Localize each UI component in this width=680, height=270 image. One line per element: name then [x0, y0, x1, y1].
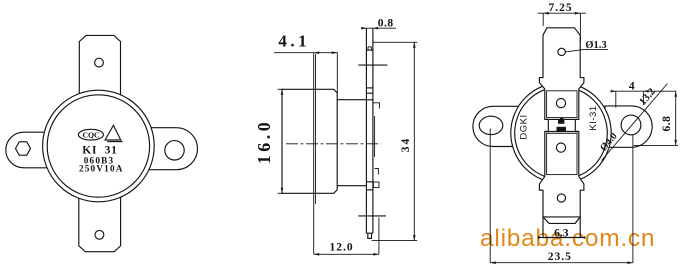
top mounting tab (front view): [79, 35, 120, 97]
mounting plate right edge (side view): [372, 28, 374, 233]
12.0 right extension line: [378, 218, 380, 255]
diagonal leader through right ear hole: [602, 84, 668, 161]
top tab hole: [95, 58, 104, 67]
svg-text:CQC: CQC: [83, 131, 100, 140]
thermostat body inner circle (front view): [47, 95, 149, 197]
dimension line for 0.8: [362, 27, 396, 29]
central bracket with terminals (rear view): [539, 28, 584, 238]
extension line from cap right edge: [336, 53, 338, 93]
bent tab line behind plate: [374, 116, 376, 157]
plate bottom foot: [368, 233, 372, 238]
extension line through body (left of 12.0 dim): [313, 53, 315, 255]
inner body line: [315, 54, 317, 204]
23.5 right extension line: [632, 135, 634, 263]
cap body (side view): [282, 89, 337, 193]
dimension line for 6.3: [539, 237, 585, 239]
svg-text:34: 34: [400, 137, 412, 153]
bottom plate rivet hole: [556, 143, 565, 152]
top plate rivet hole: [556, 99, 565, 108]
top terminal edge-on (side view): [358, 64, 387, 66]
svg-text:7.25: 7.25: [548, 2, 572, 14]
34 extension line bottom: [372, 240, 418, 242]
right mounting ear (front view): [140, 128, 198, 170]
alibaba.com.cn watermark: [480, 225, 655, 252]
bottom terminal edge-on (side view): [358, 215, 386, 217]
bottom mounting tab (front view): [79, 195, 121, 252]
svg-text:4: 4: [629, 80, 635, 92]
dimension line for 23.5: [490, 262, 633, 264]
left ear hole (rear view): [479, 116, 503, 134]
plate rung marks lower: [366, 181, 373, 183]
top plate bottom edge: [545, 118, 579, 120]
left mounting ear (rear view): [473, 106, 518, 146]
plate top tab marks: [366, 49, 373, 51]
svg-text:23.5: 23.5: [548, 251, 572, 263]
dimension line for 12.0: [314, 253, 379, 255]
bottom plate top edge: [545, 131, 579, 133]
svg-text:KI-31: KI-31: [588, 105, 599, 130]
center adjusting rivet: [560, 118, 563, 120]
mounting plate left edge (side view): [365, 28, 367, 233]
horizontal center line (side view): [286, 143, 381, 145]
svg-text:4.1: 4.1: [278, 31, 310, 50]
bottom plate inner outline: [547, 133, 577, 174]
16.0 dimension arrows on cap left face: [278, 88, 283, 90]
flange inner circle (rear view): [515, 87, 608, 180]
dimension line for 7.25: [538, 12, 586, 14]
svg-text:250V10A: 250V10A: [79, 164, 124, 174]
bottom blade crimp mark: [543, 217, 580, 224]
right mounting ear (rear view): [605, 106, 652, 147]
dimension line for 4 and 6.8 top extension: [613, 90, 677, 92]
thermostat body outer circle (front view): [43, 90, 155, 202]
top plate inner outline: [547, 91, 577, 118]
right ear round hole: [165, 141, 184, 160]
CQC certification ellipse logo: [78, 129, 103, 140]
right ear hole (rear view): [621, 115, 641, 135]
plate rung marks upper: [366, 87, 373, 89]
bent tab step top: [373, 103, 380, 109]
svg-text:DGKI: DGKI: [518, 114, 529, 139]
cap neck top edge: [337, 99, 366, 101]
bottom tab hole: [95, 230, 104, 239]
svg-text:12.0: 12.0: [329, 242, 353, 254]
svg-text:alibaba.com.cn: alibaba.com.cn: [480, 225, 655, 252]
dimension 34 vertical line: [413, 42, 415, 240]
triangle certification mark: [105, 125, 121, 140]
bottom terminal blade hole: [557, 194, 565, 202]
flange outer circle (rear view): [511, 83, 611, 183]
bent tab step bottom: [375, 169, 379, 175]
top terminal blade hole: [558, 48, 565, 55]
svg-text:16.0: 16.0: [254, 119, 274, 165]
6.8 bottom extension line: [634, 144, 678, 146]
svg-text:6.8: 6.8: [661, 116, 673, 132]
left mounting ear (front view): [6, 132, 58, 168]
23.5 left extension line: [489, 129, 491, 263]
dimension 6.8 vertical line: [675, 91, 677, 145]
left ear hexagonal hole: [16, 142, 31, 155]
34 extension line top: [373, 41, 417, 43]
dimension line for 4.1: [274, 52, 338, 54]
cap neck bottom edge: [337, 185, 366, 187]
